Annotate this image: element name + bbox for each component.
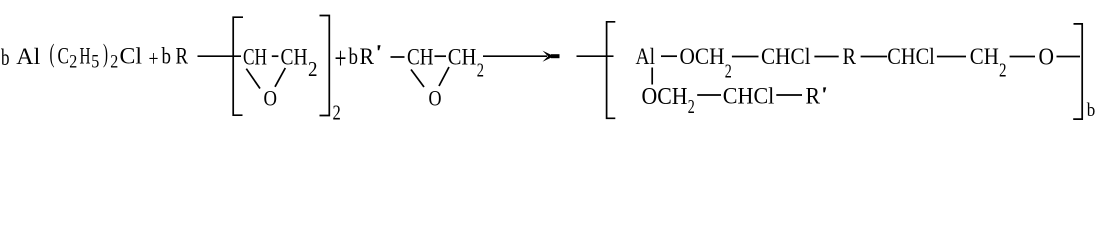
bond R' to CH [391, 56, 405, 58]
left bracket of product [607, 22, 616, 119]
svg-text:H: H [80, 44, 91, 69]
svg-text:O: O [1039, 44, 1055, 70]
svg-text:b: b [1, 45, 10, 70]
svg-text:CH: CH [281, 45, 308, 70]
epoxide 1 hyphen [272, 55, 279, 57]
reaction arrow [483, 51, 560, 62]
Al-O vertical bond [651, 68, 653, 85]
svg-text:2: 2 [477, 60, 484, 82]
svg-text:2: 2 [688, 97, 695, 118]
svg-text:CHCl: CHCl [761, 44, 811, 69]
svg-text:C: C [58, 44, 70, 69]
svg-text:Al: Al [636, 44, 656, 69]
svg-text:+: + [149, 46, 159, 71]
bond Al to OCH2 [661, 55, 677, 57]
svg-text:5: 5 [91, 52, 99, 73]
bond bottom [776, 94, 802, 96]
right bracket of epoxide 1 [320, 16, 330, 116]
bond [937, 56, 966, 58]
svg-text:CH: CH [970, 44, 999, 69]
epoxide 1 right C-O bond [275, 68, 285, 87]
svg-text:b: b [1087, 100, 1096, 121]
svg-text:CH: CH [448, 45, 477, 70]
bond [732, 56, 759, 58]
svg-text:CH: CH [243, 45, 267, 70]
bond R to bracket [198, 55, 242, 57]
bond [1010, 56, 1035, 58]
svg-text:CHCl: CHCl [723, 84, 775, 109]
epoxide 2 right C-O bond [439, 67, 449, 86]
svg-text:b: b [162, 44, 172, 69]
svg-text:(: ( [50, 39, 55, 68]
bond bottom [697, 94, 721, 96]
left bracket of epoxide 1 [233, 17, 243, 115]
svg-text:R: R [843, 44, 857, 69]
svg-text:Al: Al [16, 44, 40, 69]
svg-text:CH: CH [407, 45, 434, 70]
svg-text:R: R [176, 44, 189, 69]
svg-text:R: R [360, 44, 375, 69]
svg-text:2: 2 [69, 52, 77, 73]
svg-text:2: 2 [110, 52, 118, 73]
svg-text:OCH: OCH [680, 44, 725, 69]
svg-text:b: b [349, 44, 359, 69]
svg-text:CHCl: CHCl [887, 44, 935, 69]
epoxide 2 hyphen [435, 55, 447, 57]
bond into product bracket [577, 55, 614, 57]
bond [861, 56, 888, 58]
svg-text:2: 2 [333, 101, 341, 125]
epoxide 2 left C-O bond [411, 70, 424, 88]
svg-text:2: 2 [999, 60, 1007, 82]
svg-text:O: O [264, 85, 278, 110]
bond [814, 56, 838, 58]
bond [1057, 56, 1081, 58]
svg-text:2: 2 [725, 61, 732, 83]
epoxide 1 left C-O bond [246, 69, 260, 89]
svg-text:+: + [335, 40, 347, 76]
svg-text:2: 2 [308, 57, 318, 81]
svg-text:Cl: Cl [120, 44, 143, 69]
svg-text:R: R [806, 84, 821, 109]
svg-text:OCH: OCH [642, 84, 688, 110]
right bracket of product [1073, 24, 1082, 119]
svg-text:O: O [429, 85, 442, 110]
svg-text:): ) [103, 39, 108, 68]
reactant text bAl(C2H5)2Cl+bR [1, 39, 189, 73]
